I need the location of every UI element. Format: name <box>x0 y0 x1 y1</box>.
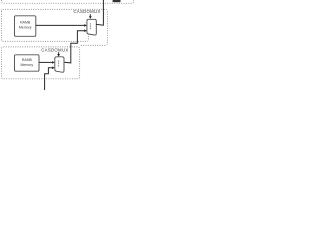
svg-text:Memory: Memory <box>19 26 32 30</box>
arrowhead into lower mux lower input <box>52 67 55 70</box>
svg-text:CASDOMUX: CASDOMUX <box>73 9 100 14</box>
svg-text:RAMB: RAMB <box>20 21 31 25</box>
arrowhead into mux upper input <box>84 24 87 27</box>
cascade wire lower mux output to upper mux input <box>64 31 84 63</box>
mux lower interior glyph marks <box>58 60 59 66</box>
wire memory to mux lower <box>39 61 52 63</box>
wire memory to mux upper <box>36 24 85 26</box>
arrowhead into lower mux upper input <box>52 61 55 64</box>
dashed top edge of upper stage box <box>2 9 108 11</box>
arrowhead into mux upper lower input <box>84 29 87 32</box>
RAMB Memory block upper <box>15 16 36 37</box>
background <box>0 0 160 90</box>
mux upper interior glyph marks <box>90 23 91 29</box>
select arrow into mux upper <box>89 14 91 16</box>
svg-text:RAMB: RAMB <box>22 58 33 62</box>
mux CASDOMUX lower <box>55 57 64 72</box>
dashed right edge of upper stage box <box>80 11 108 45</box>
mux CASDOMUX upper <box>87 19 96 35</box>
select arrow into mux lower <box>58 52 60 54</box>
dashed bottom edge of upper stage box <box>2 35 89 42</box>
dashed bottom edge of block RAM stage above (cut off at top) <box>2 0 134 3</box>
RAMB Memory block lower <box>15 55 40 71</box>
output wire of upper mux exiting top <box>96 0 103 25</box>
svg-text:CASDOMUX: CASDOMUX <box>41 47 68 52</box>
svg-text:Memory: Memory <box>20 63 33 67</box>
dark block fragment cut off at top edge <box>113 0 121 2</box>
cascade input wire from below into lower mux <box>45 68 53 90</box>
dashed left edge of upper stage box <box>1 11 3 39</box>
dashed box of lower stage <box>2 47 80 79</box>
